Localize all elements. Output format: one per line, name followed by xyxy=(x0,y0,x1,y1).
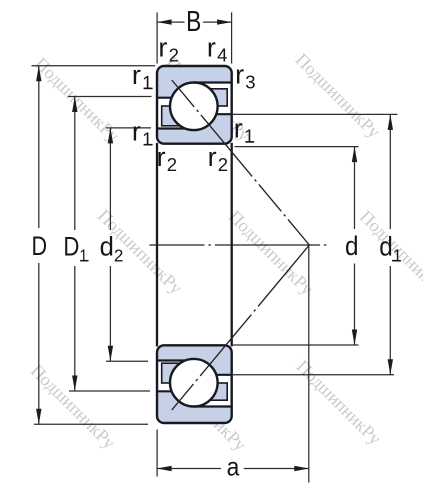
svg-text:B: B xyxy=(186,7,201,38)
svg-text:r2: r2 xyxy=(158,32,178,65)
svg-text:r2: r2 xyxy=(208,142,228,175)
svg-text:r2: r2 xyxy=(157,142,177,175)
svg-text:r4: r4 xyxy=(207,32,227,65)
svg-text:ПодшипникРу: ПодшипникРу xyxy=(31,53,123,145)
svg-text:ПодшипникРу: ПодшипникРу xyxy=(292,49,384,141)
svg-text:D: D xyxy=(32,232,48,262)
svg-text:d: d xyxy=(345,232,359,261)
svg-text:ПодшипникРу: ПодшипникРу xyxy=(293,356,385,448)
svg-text:a: a xyxy=(227,453,240,482)
svg-text:r3: r3 xyxy=(235,59,255,92)
svg-text:ПодшипникРу: ПодшипникРу xyxy=(27,360,119,452)
